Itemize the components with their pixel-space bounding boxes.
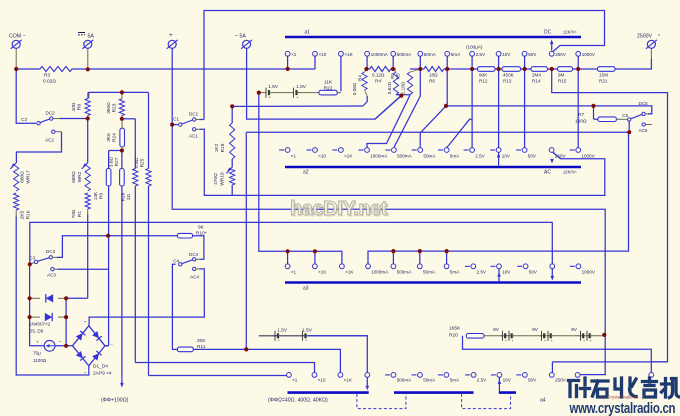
junction (445, 249, 449, 253)
svg-text:×10: ×10 (319, 52, 327, 57)
svg-text:~: ~ (84, 319, 87, 324)
wire shunt rail y=92.4 (89, 92, 149, 98)
contact a2 ×10 (313, 148, 318, 153)
svg-text:2.5V: 2.5V (476, 52, 486, 57)
contact a3 500mA (391, 264, 396, 269)
contact a1 5mA (445, 51, 450, 56)
resistor R14 2M4 box (531, 67, 548, 72)
svg-text:C1: C1 (173, 117, 179, 122)
deck bar a4 segment2 (394, 391, 474, 394)
wire DC2 to R8 node (60, 118, 88, 120)
contact a3 ×1K (340, 264, 345, 269)
junction (86, 116, 90, 120)
contact a2 10V (496, 148, 501, 153)
junction (28, 262, 32, 266)
svg-text:+: + (269, 94, 272, 99)
wire a3 wiper arrow 10V (498, 269, 500, 282)
svg-text:a3: a3 (303, 286, 309, 292)
svg-text:500mA: 500mA (397, 378, 412, 383)
contact a2 500mA (392, 148, 397, 153)
contact a4 ×10 (312, 373, 317, 378)
svg-text:1K2: 1K2 (214, 143, 220, 152)
svg-text:R4′: R4′ (375, 79, 382, 84)
svg-text:AC4: AC4 (190, 275, 199, 280)
junction (418, 67, 422, 71)
wire x10 a4 feed (135, 363, 314, 373)
contact a3 50V (523, 264, 528, 269)
junction (120, 117, 124, 121)
svg-text:165K: 165K (449, 326, 461, 332)
contact a1 250V (549, 51, 554, 56)
svg-text:50mA: 50mA (423, 154, 436, 159)
svg-text:×10: ×10 (318, 270, 326, 275)
wire R26 column x=135.3 (134, 119, 136, 169)
svg-text:R26: R26 (121, 192, 127, 201)
svg-text:10V: 10V (502, 270, 511, 275)
svg-text:C3: C3 (29, 256, 35, 261)
svg-text:1100Ω: 1100Ω (33, 358, 47, 363)
junction (257, 91, 261, 95)
deck bar a4 segment3 (499, 391, 516, 394)
watermark crystalradio logo text (569, 378, 680, 398)
svg-text:5mA: 5mA (450, 378, 460, 383)
svg-text:9M: 9M (558, 73, 565, 78)
svg-text:R27: R27 (114, 157, 120, 166)
svg-text:R4: R4 (358, 75, 363, 81)
wire R24 bottom link to R9 column (109, 150, 122, 152)
junction (230, 104, 234, 108)
svg-text:1.5V: 1.5V (296, 84, 307, 90)
wire meter row (43, 345, 45, 347)
wire R27 column to meter-test arrow (121, 151, 123, 169)
svg-text:+: + (589, 338, 592, 343)
svg-text:a2: a2 (303, 170, 309, 176)
svg-text:3K6: 3K6 (106, 133, 112, 142)
svg-text:AC3: AC3 (47, 273, 56, 278)
svg-text:WR2: WR2 (77, 171, 83, 182)
svg-text:R24: R24 (112, 133, 118, 142)
junction (14, 67, 18, 71)
svg-text:0.5Ω: 0.5Ω (134, 157, 140, 168)
contact a1 ×10 (313, 51, 318, 56)
svg-text:R8: R8 (77, 104, 83, 110)
contact a1 50mA (418, 51, 423, 56)
svg-text:×10: ×10 (318, 154, 326, 159)
wire 250V-a4 tie y=362 (552, 361, 667, 363)
contact a2 ×1K (339, 148, 344, 153)
wire x=246.3 column down to R11 line (245, 132, 247, 349)
svg-text:14K: 14K (93, 191, 99, 200)
svg-text:×1: ×1 (291, 52, 297, 57)
junction (470, 67, 474, 71)
wire a1 DC wiper diag (552, 51, 554, 53)
svg-text:+: + (36, 340, 39, 345)
contact a1 ×1K (339, 51, 344, 56)
junction (28, 315, 32, 319)
contact a2 ×1 (285, 148, 290, 153)
wire ~5A terminal column to shunt diag (247, 49, 402, 120)
junction (399, 94, 403, 98)
svg-text:hacDIY.net: hacDIY.net (290, 198, 388, 220)
svg-text:250V: 250V (555, 378, 567, 383)
svg-text:−: − (59, 340, 62, 346)
wire AC4 to bridge top (89, 269, 204, 326)
junction (550, 67, 554, 71)
resistor R27 3.6 box (120, 169, 125, 187)
svg-text:D5. D6: D5. D6 (29, 329, 44, 334)
wire DC1 up column (199, 119, 204, 121)
svg-text:50V: 50V (528, 52, 537, 57)
wire DC3 feed to R10 line y=235.7 (57, 236, 177, 258)
svg-text:R15: R15 (558, 79, 567, 84)
wire chain 2500V corner (615, 59, 651, 69)
svg-text:500mA: 500mA (397, 270, 412, 275)
svg-text:250V: 250V (555, 52, 567, 57)
wire 2500V DC tie x=667.5 (552, 69, 668, 362)
svg-text:D1_D4: D1_D4 (93, 364, 108, 370)
svg-text:+: + (296, 94, 299, 99)
svg-text:+: + (511, 338, 514, 343)
svg-text:R1: R1 (77, 211, 83, 217)
contact a4 10V (497, 373, 502, 378)
wire a3 feed right segment (368, 132, 629, 264)
switch C2 DC2 AC2 (37, 122, 40, 125)
svg-text:680Ω: 680Ω (71, 171, 77, 183)
svg-text:R6: R6 (429, 79, 435, 84)
contact a2 2.5V (470, 148, 475, 153)
svg-text:2500V: 2500V (637, 34, 653, 40)
svg-text:70Ω: 70Ω (71, 209, 77, 218)
svg-text:×1K: ×1K (345, 270, 354, 275)
svg-text:R20: R20 (449, 333, 458, 339)
wire R11 row to x1K a4 (193, 349, 340, 372)
svg-text:×1K: ×1K (344, 154, 353, 159)
junction (64, 296, 68, 300)
svg-text:+: + (169, 32, 173, 39)
svg-text:2Ω: 2Ω (126, 193, 132, 200)
junction (64, 315, 68, 319)
svg-text:DC3: DC3 (46, 249, 56, 254)
svg-text:DC2: DC2 (46, 111, 56, 116)
wire C5 down to AC line (628, 119, 630, 132)
contact a3 10V (497, 264, 502, 269)
contact a1 ×1 (285, 51, 290, 56)
battery cells 1.5V row1 (263, 92, 266, 94)
svg-text:1000mA: 1000mA (371, 270, 389, 275)
resistor R1 70 (85, 193, 90, 209)
terminal 2500V (647, 40, 655, 48)
svg-text:20K: 20K (197, 338, 206, 344)
svg-text:1.5V: 1.5V (277, 328, 288, 334)
svg-text:5mA: 5mA (451, 52, 461, 57)
svg-text:11K: 11K (324, 80, 333, 86)
wire COM column down to C2 (16, 69, 35, 123)
resistor R23 360 (119, 99, 124, 116)
wire C3 feed line y=222.4 (30, 222, 553, 276)
wire battery2 return y=349.3 (463, 336, 652, 376)
contact a2 50mA (418, 148, 423, 153)
svg-text:1.5V: 1.5V (302, 328, 313, 334)
svg-text:≈: ≈ (658, 32, 661, 37)
wire R25 column x=148.6 (148, 92, 150, 168)
contact a3 50mA (417, 264, 422, 269)
wire COM terminal lead (15, 49, 17, 70)
contact a4 ×1 (287, 373, 292, 378)
dashed link a4 gap2 (462, 394, 511, 409)
terminal 5A DC (84, 40, 92, 48)
contact a4 2.5V (471, 373, 476, 378)
contact a1 2.5V (470, 51, 475, 56)
diag y106 to 50mA a2 (420, 106, 446, 148)
wire 9K feed dot link (108, 235, 110, 237)
contact a3 2.5V (471, 264, 476, 269)
contact a4 250V (549, 373, 554, 378)
svg-text:1000V: 1000V (582, 270, 596, 275)
svg-text:DC4: DC4 (189, 252, 199, 257)
junction (86, 67, 90, 71)
svg-text:9V: 9V (532, 327, 539, 333)
contact a4 500mA (391, 373, 396, 378)
junction (391, 67, 395, 71)
wire WR2-R1 column x=87.7 (87, 68, 89, 70)
junction (120, 90, 124, 94)
diag R5p to ~5A line (375, 96, 401, 120)
resistor R11 20K box (177, 347, 193, 352)
svg-text:×1: ×1 (291, 270, 297, 275)
junction (106, 234, 110, 238)
svg-text:1000mA: 1000mA (371, 52, 389, 57)
resistor chain R4p 0.12 (370, 66, 391, 71)
svg-text:×1K: ×1K (344, 378, 353, 383)
svg-text:R7: R7 (578, 112, 584, 118)
svg-text:470Ω: 470Ω (213, 173, 219, 185)
svg-text:50V: 50V (528, 154, 537, 159)
potentiometer WR2 680 (85, 163, 90, 191)
svg-text:2.5V: 2.5V (477, 378, 487, 383)
contact a4 5mA (444, 373, 449, 378)
dashed link a4 gap1 (357, 394, 406, 409)
junction (244, 347, 248, 351)
junction (391, 249, 395, 253)
svg-text:R25: R25 (140, 158, 146, 167)
svg-text:0.62Ω: 0.62Ω (387, 81, 392, 94)
svg-text:10V: 10V (502, 154, 511, 159)
contact a4 50mA (418, 373, 423, 378)
wire R18 column (231, 106, 233, 123)
svg-text:-: - (111, 342, 113, 348)
potentiometer WR17 680 (14, 163, 19, 191)
contact a3 ×1 (285, 264, 290, 269)
contact a2 250V (549, 148, 554, 153)
svg-text:WR19: WR19 (220, 172, 226, 186)
junction (120, 148, 124, 152)
battery cells 1.5V row2 (272, 335, 275, 337)
wire battery1 column x=259 to a3 feed (259, 93, 342, 264)
svg-text:±2K/V≈: ±2K/V≈ (563, 170, 577, 175)
junction (576, 67, 580, 71)
svg-text:500mA: 500mA (397, 52, 412, 57)
potentiometer WR19 470 (230, 168, 235, 186)
svg-text:18Ω: 18Ω (429, 73, 438, 78)
svg-text:DC5: DC5 (639, 101, 649, 106)
contact a4 1000V (575, 373, 580, 378)
diag 500mA a2 to R5-R6 node (394, 69, 420, 147)
junction (523, 67, 527, 71)
svg-text:×10: ×10 (318, 378, 326, 383)
svg-text:1000V: 1000V (582, 52, 596, 57)
wire chain plain segments y=69 (367, 68, 370, 70)
wire a2 feed jog 1000mA (367, 95, 410, 148)
svg-text:AC2: AC2 (45, 138, 54, 143)
wire x1 a4 feed (149, 375, 287, 377)
resistor R25 0.5 zigzag (146, 169, 151, 187)
svg-text:2M4: 2M4 (532, 73, 541, 78)
contact a1 1000V (576, 51, 581, 56)
contact a2 5mA (444, 148, 449, 153)
wire + terminal column to y209 bus (172, 49, 605, 335)
svg-text:R12: R12 (479, 79, 488, 84)
switch C3 DC3 AC3 (34, 260, 37, 263)
svg-text:75μ: 75μ (33, 351, 41, 356)
svg-text:R10*: R10* (196, 231, 207, 237)
resistor chain R5 1.18 (407, 72, 412, 95)
svg-text:×1: ×1 (291, 154, 297, 159)
svg-text:~ 5A: ~ 5A (235, 34, 246, 40)
svg-text:(100μA): (100μA) (466, 45, 483, 50)
resistor R18 1K2 (230, 123, 235, 159)
svg-text:680Ω: 680Ω (20, 171, 26, 183)
resistor R9 14K box (106, 169, 111, 187)
deck bar a2 AC (285, 166, 581, 169)
wire AC5 stub (646, 124, 652, 126)
svg-text:R16: R16 (26, 210, 32, 219)
svg-text:0.06Ω: 0.06Ω (352, 82, 357, 95)
contact a3 1000V (576, 264, 581, 269)
wire C3 column to diodes and meter (30, 264, 44, 346)
svg-text:www.crystalradio.cn: www.crystalradio.cn (569, 400, 676, 416)
junction (28, 296, 32, 300)
wire a2 250V wiper link (553, 152, 555, 154)
svg-text:(ΦΦ+100Ω): (ΦΦ+100Ω) (101, 398, 129, 404)
svg-text:1000V: 1000V (581, 154, 595, 159)
svg-text:50V: 50V (528, 378, 537, 383)
contact a3 ×10 (313, 264, 318, 269)
diag 5mA a2 to 2.5V column (447, 119, 473, 147)
svg-text:40Ω: 40Ω (71, 102, 77, 111)
bridge rectifier D1-D4 (73, 326, 106, 366)
wire battery1/DC-mA line y=106 (232, 105, 363, 107)
junction (627, 130, 631, 134)
svg-text:1N4007×2: 1N4007×2 (29, 322, 51, 327)
svg-text:50mA: 50mA (423, 270, 436, 275)
terminal ~5A (243, 40, 251, 48)
link R5p R5 bottoms (396, 94, 410, 96)
contact a4 pos (365, 373, 370, 378)
svg-text:DC1: DC1 (189, 112, 199, 117)
resistor chain R4 0.06 (362, 72, 367, 90)
wire R9-AC3-bridge column x=108.6 (108, 151, 110, 169)
wire COM bus y=69 left (16, 68, 40, 70)
arrow test point (meter+100) (120, 383, 124, 388)
svg-text:2AP9 ×4: 2AP9 ×4 (93, 371, 112, 377)
switch C5 DC5 AC5 (628, 118, 631, 121)
svg-text:R13: R13 (503, 79, 512, 84)
resistor R8 40 (85, 99, 90, 116)
svg-text:+: + (550, 338, 553, 343)
watermark hacDIY.net (290, 198, 389, 222)
svg-text:R14: R14 (532, 79, 541, 84)
svg-text:2.5V: 2.5V (477, 270, 487, 275)
svg-text:50mA: 50mA (424, 52, 437, 57)
svg-text:360Ω: 360Ω (106, 102, 112, 114)
wire C5 AC line y=131.9 (246, 131, 629, 133)
junction (418, 249, 422, 253)
contact a4 ×1K (338, 373, 343, 378)
junction (364, 67, 368, 71)
contact a1 500mA (391, 51, 396, 56)
wire battery2 row (466, 335, 604, 337)
wire battery1 row y=92.6 (259, 92, 263, 94)
wire D5-D6 right column (65, 298, 67, 346)
resistor R15 9M box (558, 67, 573, 72)
resistor R3 0.02 (40, 66, 72, 71)
wire 1.5V cells row to a4 wiper (259, 336, 368, 386)
wire DC5 up link (648, 113, 652, 115)
svg-text:450K: 450K (503, 73, 515, 78)
svg-text:R5′: R5′ (396, 72, 401, 79)
svg-text:R23: R23 (112, 103, 118, 112)
contact a2 1000mA (365, 148, 370, 153)
svg-text:9V: 9V (571, 327, 578, 333)
wire 5mA-a1 node down to y106 (446, 69, 448, 106)
wire D6 row (30, 316, 40, 318)
svg-text:1.5V: 1.5V (268, 84, 279, 90)
diode D5 (46, 294, 53, 302)
resistor R22 11K box (319, 90, 337, 95)
contact a2 50V (522, 148, 527, 153)
wire battery+ corner to 1000V a4 (580, 335, 605, 375)
svg-text:0.02Ω: 0.02Ω (43, 79, 56, 85)
svg-text:250V: 250V (555, 154, 567, 159)
svg-text:AC: AC (544, 170, 551, 176)
contact a4 pos (649, 373, 654, 378)
junction (313, 249, 317, 253)
svg-text:R5: R5 (390, 73, 395, 79)
junction (64, 344, 68, 348)
wire R10 to DC4 (193, 236, 204, 260)
svg-text:(ΦΦΩ=40Ω. 400Ω. 40KΩ): (ΦΦΩ=40Ω. 400Ω. 40KΩ) (268, 398, 328, 404)
switch C4 DC4 AC4 (179, 263, 182, 266)
junction (444, 104, 448, 108)
contact a1 50V (522, 51, 527, 56)
wire C2 blade region stub (35, 122, 36, 124)
svg-text:10V: 10V (502, 52, 511, 57)
svg-text:9K: 9K (198, 225, 205, 231)
contact a3 250V (550, 264, 555, 269)
battery 9V x3 (500, 335, 503, 337)
resistor R12 90K box (478, 67, 496, 72)
wire AC3 row (58, 268, 109, 270)
svg-text:~: ~ (84, 370, 87, 375)
wire C1 stub (172, 124, 178, 126)
svg-text:R22: R22 (324, 86, 333, 92)
wire AC2 jog to WR17 top (16, 132, 61, 163)
svg-text:COM −: COM − (9, 34, 26, 40)
svg-text:C2: C2 (21, 117, 27, 122)
svg-text:5mA: 5mA (450, 270, 460, 275)
junction (286, 67, 290, 71)
deck bar a3 (285, 281, 581, 284)
